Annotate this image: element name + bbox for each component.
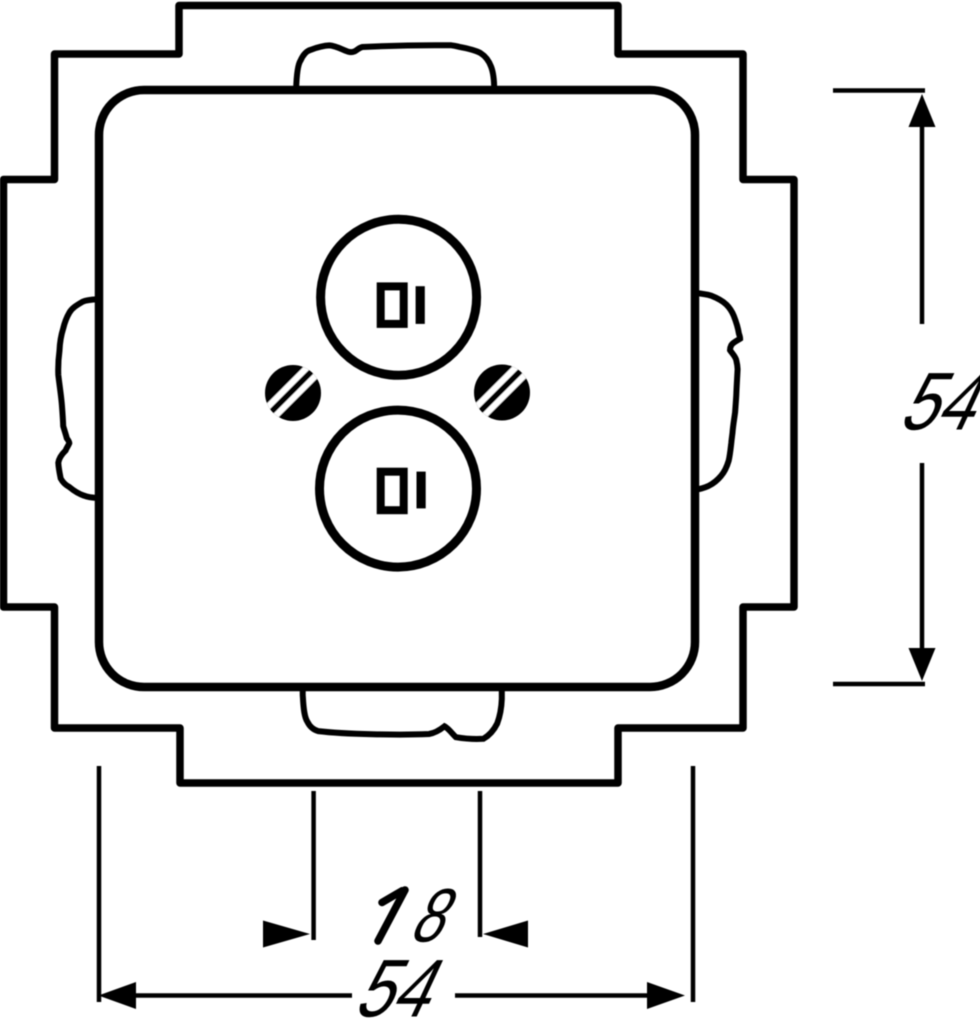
upper jack symbol: open rectangle [381, 286, 404, 324]
right dimension line (vertical, upper segment) [920, 115, 925, 324]
upper speaker-jack opening (circle) [321, 219, 477, 375]
right dimension: upper arrowhead [909, 94, 936, 127]
right dimension: bottom extension tick [833, 682, 925, 687]
bottom 54 dimension: right extension line [691, 766, 696, 1002]
bottom 54 dimension: left arrowhead [98, 982, 136, 1009]
left retaining tab [58, 299, 97, 498]
lower jack symbol: open rectangle [381, 472, 404, 511]
bottom retaining tab [303, 687, 502, 739]
left fixing screw (hatched) [259, 359, 321, 426]
right dimension line (vertical, lower segment) [920, 463, 925, 660]
lower speaker-jack opening (circle) [320, 410, 477, 567]
18 dimension: left extension line [311, 791, 316, 940]
bottom 54 dimension line left segment [120, 993, 352, 998]
top retaining tab [296, 45, 494, 89]
18 dimension: right extension line [478, 791, 483, 937]
right fixing screw (hatched) [468, 359, 530, 426]
bottom 54 dimension line right segment [455, 993, 668, 998]
lower jack symbol: bar [417, 472, 426, 509]
upper jack symbol: bar [416, 286, 425, 324]
right retaining tab [694, 293, 740, 490]
bottom 54 dimension: left extension line [97, 766, 102, 1002]
bottom 54 dimension: right arrowhead [647, 982, 685, 1009]
18 dimension label: digit 1 (drawn) [378, 890, 405, 941]
18 dimension: right arrowhead [483, 921, 528, 948]
cover plate (rounded square) [99, 90, 695, 687]
outer support frame (stepped mounting plate outline) [4, 6, 795, 784]
18 dimension: left arrowhead [263, 921, 310, 948]
right dimension: top extension tick [833, 88, 925, 93]
right dimension: lower arrowhead [909, 648, 936, 681]
